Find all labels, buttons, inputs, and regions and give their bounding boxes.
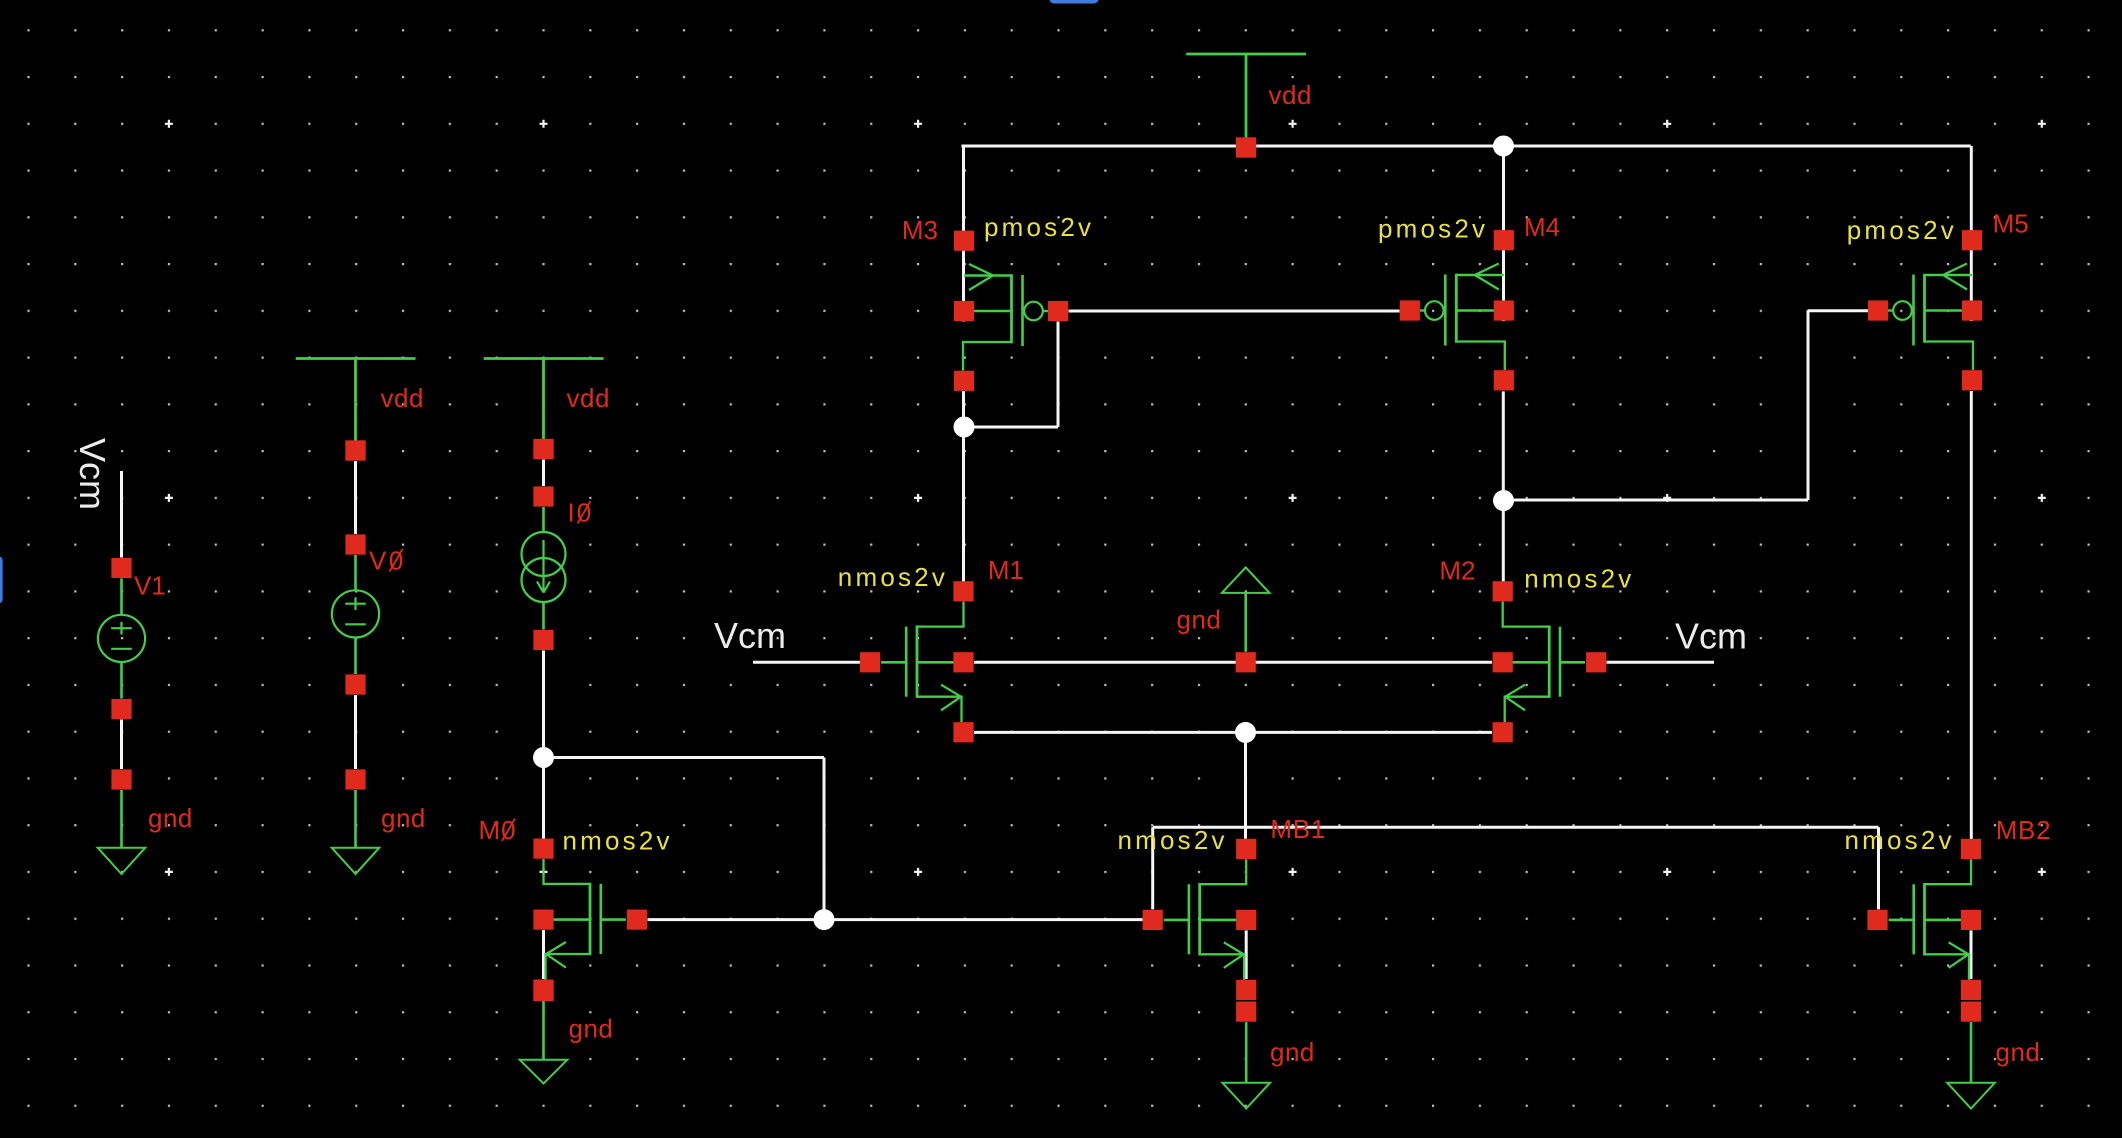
power symbol vdd (top)	[1186, 54, 1306, 158]
label gnd (MB1)	[1270, 1037, 1315, 1067]
wire net bias vertical	[823, 758, 826, 920]
label M2	[1439, 556, 1475, 586]
svg-text:gnd: gnd	[1996, 1037, 2041, 1067]
wire net bias M0 gate to MB1 gate	[648, 918, 1143, 921]
label vdd (top)	[1269, 80, 1312, 110]
svg-text:M4: M4	[1524, 212, 1560, 242]
wire net n1 M3 drain to M1 drain	[962, 391, 965, 592]
wire net vdd M5 column	[1970, 146, 1973, 321]
label nmos2v (MB1)	[1118, 825, 1228, 855]
wire net tail down to MB1 drain	[1244, 732, 1247, 838]
svg-text:vdd: vdd	[381, 383, 424, 413]
svg-text:V1: V1	[134, 571, 166, 601]
voltage source symbol (V0)	[332, 590, 379, 637]
wire net outp to M5 gate horizontal	[1503, 499, 1808, 502]
power symbol vdd (V0 branch)	[296, 359, 416, 461]
pin V0 minus	[345, 674, 365, 694]
svg-text:gnd: gnd	[148, 803, 193, 833]
pin I0 vdd	[533, 439, 553, 459]
pin I0 bottom	[533, 630, 553, 650]
wire net M0 bulk-source tie	[542, 930, 545, 979]
label gnd (V0)	[381, 803, 426, 833]
svg-text:V0: V0	[369, 546, 406, 576]
pin V1 plus	[111, 558, 131, 578]
label I0	[568, 498, 594, 528]
wire I0 top stem	[542, 507, 545, 533]
svg-text:gnd: gnd	[569, 1014, 614, 1044]
label gnd (MB2)	[1996, 1037, 2041, 1067]
wire net outp M4 drain to M2 drain	[1502, 391, 1505, 592]
wire I0 bottom stem	[542, 602, 545, 630]
wire V1 plus stem	[120, 579, 123, 616]
junction node vdd rail / M4	[1493, 136, 1514, 157]
wire net vdd V0 link	[354, 461, 357, 534]
label M0	[479, 815, 517, 845]
label gnd (M0)	[569, 1014, 614, 1044]
label net Vcm (left, vertical)	[72, 438, 113, 510]
wire net outp to M5 gate top	[1808, 309, 1869, 312]
wire V1 minus stem	[120, 662, 123, 699]
ground symbol pointing up (middle)	[1222, 567, 1270, 672]
transistor MB1 (nmos2v)	[1143, 839, 1257, 1000]
svg-text:nmos2v: nmos2v	[838, 562, 948, 592]
transistor M2 (nmos2v)	[1493, 581, 1607, 742]
svg-text:gnd: gnd	[1270, 1037, 1315, 1067]
wire net V0 minus link	[354, 695, 357, 769]
svg-text:M2: M2	[1439, 556, 1475, 586]
svg-text:nmos2v: nmos2v	[1524, 564, 1634, 594]
wire net Vcm to M1 gate	[753, 661, 861, 664]
transistor M1 (nmos2v)	[860, 581, 974, 742]
junction node outp (M4 drain)	[1493, 490, 1514, 511]
blue tab artifact top edge	[1050, 0, 1099, 4]
label nmos2v (M2)	[1524, 564, 1634, 594]
label M3	[902, 215, 938, 245]
wire net MB2 gate riser	[1877, 827, 1880, 909]
svg-text:nmos2v: nmos2v	[563, 826, 673, 856]
wire net vdd I0 link	[542, 460, 545, 487]
label nmos2v (MB2)	[1845, 825, 1955, 855]
wire net Vcm to M2 gate	[1607, 661, 1715, 664]
voltage source symbol (V1)	[98, 615, 145, 662]
label net Vcm (M2 gate)	[1675, 616, 1747, 657]
ground symbol (MB2 source)	[1947, 1002, 1995, 1109]
svg-text:vdd: vdd	[1269, 80, 1312, 110]
wire net vdd M3 column	[962, 146, 965, 322]
label MB2	[1996, 815, 2052, 845]
svg-text:Vcm: Vcm	[714, 615, 786, 656]
label M1	[988, 555, 1024, 585]
svg-text:nmos2v: nmos2v	[1118, 825, 1228, 855]
junction node n1 (M3 drain)	[954, 417, 975, 438]
wire net outp to M5 gate vertical	[1807, 311, 1810, 500]
label V0	[369, 546, 406, 576]
label M5	[1993, 209, 2029, 239]
label nmos2v (M0)	[563, 826, 673, 856]
pin V0 plus	[345, 534, 365, 554]
junction node bias gate tee	[814, 909, 835, 930]
wire net pgate M3 gate to M4 gate	[1069, 310, 1400, 313]
ground symbol (MB1 source)	[1222, 1002, 1270, 1109]
svg-text:pmos2v: pmos2v	[1847, 215, 1957, 245]
svg-text:M1: M1	[988, 555, 1024, 585]
svg-text:M3: M3	[902, 215, 938, 245]
svg-text:pmos2v: pmos2v	[1378, 214, 1488, 244]
transistor M5 (pmos2v)	[1868, 230, 1982, 390]
wire net MB1 gate riser	[1151, 827, 1154, 909]
ground symbol (V0 branch)	[332, 769, 380, 874]
transistor M3 (pmos2v)	[954, 231, 1068, 391]
wire net MB2 bulk-source tie	[1970, 930, 1973, 979]
pin vdd rail (top vdd)	[1236, 137, 1256, 157]
wire net gnd M1 bulk to M2 bulk	[974, 661, 1492, 664]
wire net bias I0 to M0 drain	[542, 651, 545, 839]
svg-text:MB1: MB1	[1270, 814, 1326, 844]
svg-text:M0: M0	[479, 815, 517, 845]
wire net out M5 drain to MB2 drain	[1970, 391, 1973, 848]
label pmos2v (M3)	[984, 212, 1094, 242]
label gnd (V1)	[148, 803, 193, 833]
pin V0 vdd	[345, 440, 365, 460]
ground symbol (V1 branch)	[98, 769, 146, 874]
wire net n1 diode link horizontal	[964, 426, 1058, 429]
label pmos2v (M4)	[1378, 214, 1488, 244]
ground symbol (M0 source)	[520, 1001, 568, 1084]
svg-text:nmos2v: nmos2v	[1845, 825, 1955, 855]
wire net Vcm stub V1	[120, 471, 123, 558]
junction node bias (I0 / M0 drain)	[533, 747, 554, 768]
pin gnd M0	[533, 981, 553, 1001]
wire V0 minus stem	[354, 637, 357, 674]
wire net tail M1 source to M2 source	[974, 731, 1492, 734]
label net Vcm (M1 gate)	[714, 615, 786, 656]
label vdd (V0)	[381, 383, 424, 413]
blue marker artifact left edge	[0, 557, 3, 604]
wire net bias horizontal	[544, 756, 825, 759]
label M4	[1524, 212, 1560, 242]
junction node tail	[1235, 722, 1256, 743]
label gnd (middle)	[1177, 605, 1222, 635]
svg-text:vdd: vdd	[567, 383, 610, 413]
svg-text:Vcm: Vcm	[1675, 616, 1747, 657]
label MB1	[1270, 814, 1326, 844]
transistor M0 (nmos2v)	[533, 839, 647, 1000]
svg-text:pmos2v: pmos2v	[984, 212, 1094, 242]
wire net MB1 bulk-source tie	[1245, 930, 1248, 979]
transistor MB2 (nmos2v)	[1867, 839, 1981, 1000]
wire net V1 minus link	[120, 720, 123, 770]
label V1	[134, 571, 166, 601]
wire net vdd M4 column	[1502, 146, 1505, 321]
pin I0 top	[533, 486, 553, 506]
svg-text:gnd: gnd	[1177, 605, 1222, 635]
wire V0 plus stem	[354, 555, 357, 591]
svg-text:gnd: gnd	[381, 803, 426, 833]
current source symbol (I0)	[522, 532, 566, 602]
svg-text:MB2: MB2	[1996, 815, 2052, 845]
svg-text:Vcm: Vcm	[72, 438, 113, 510]
label vdd (I0)	[567, 383, 610, 413]
pin V1 minus	[111, 699, 131, 719]
label nmos2v (M1)	[838, 562, 948, 592]
label pmos2v (M5)	[1847, 215, 1957, 245]
svg-text:M5: M5	[1993, 209, 2029, 239]
wire vdd rail top	[962, 145, 1971, 148]
transistor M4 (pmos2v)	[1400, 230, 1514, 390]
power symbol vdd (I0 branch)	[484, 359, 604, 460]
wire net MB1 gate to MB2 gate	[1153, 826, 1879, 829]
wire net n1 diode link vertical	[1057, 322, 1060, 428]
